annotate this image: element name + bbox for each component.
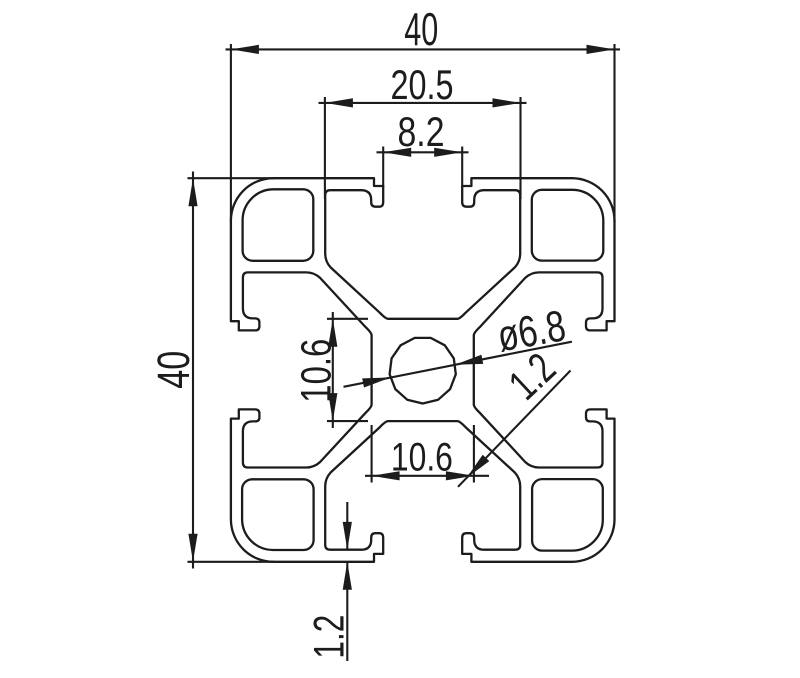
dimension 20.5: dimension line	[319, 102, 527, 104]
dimension 40 left: dimension line	[192, 172, 194, 569]
svg-text:20.5: 20.5	[391, 61, 454, 108]
leader 1.2 web: arrowhead	[467, 455, 490, 478]
svg-text:10.6: 10.6	[391, 435, 453, 479]
dimension 10.6 horizontal: dimension line	[365, 475, 489, 477]
dimension 20.5: extension lines	[324, 97, 326, 199]
dimension 40 top: extension lines	[230, 44, 232, 222]
leader line 1.2 web	[458, 371, 571, 487]
svg-text:10.6: 10.6	[293, 339, 341, 403]
dimension 40 left: arrowheads	[188, 178, 197, 206]
centre bore circle (polygonal, diameter 6.8)	[390, 338, 456, 404]
dimension 8.2: dimension line	[377, 151, 469, 153]
corner cavity bottom-left	[242, 479, 314, 550]
svg-text:1.2: 1.2	[305, 615, 353, 659]
corner cavity top-right	[532, 190, 604, 261]
dimension 10.6 vertical: arrowheads	[328, 319, 337, 347]
dimension 8.2: arrowheads	[383, 148, 411, 157]
dimension 8.2: extension lines	[382, 147, 384, 188]
dimension 1.2 bottom: dimension lines	[346, 502, 348, 550]
leader diameter 6.8: arrowheads on circle	[362, 378, 390, 388]
aluminium extrusion profile outline (outer boundary with four T-slots)	[231, 178, 615, 562]
dimension 40 top: dimension line	[226, 48, 621, 50]
dimension 1.2 bottom: arrowheads	[343, 522, 352, 550]
svg-text:40: 40	[404, 3, 438, 55]
leader line diameter 6.8	[344, 342, 572, 387]
dimension 20.5: arrowheads	[325, 98, 353, 107]
dimension 40 top: arrowheads	[231, 45, 259, 54]
svg-text:40: 40	[148, 351, 199, 389]
dimension 10.6 horizontal: arrowheads	[372, 471, 400, 480]
dimension 10.6 vertical: extension lines	[327, 318, 368, 320]
dimension 40 left: extension lines	[188, 177, 275, 179]
corner cavity bottom-right	[532, 479, 603, 550]
svg-text:8.2: 8.2	[398, 108, 445, 155]
corner cavity top-left	[243, 189, 314, 260]
dimension 10.6 vertical: dimension line	[332, 312, 334, 428]
dimension 10.6 horizontal: extension lines	[371, 425, 373, 483]
